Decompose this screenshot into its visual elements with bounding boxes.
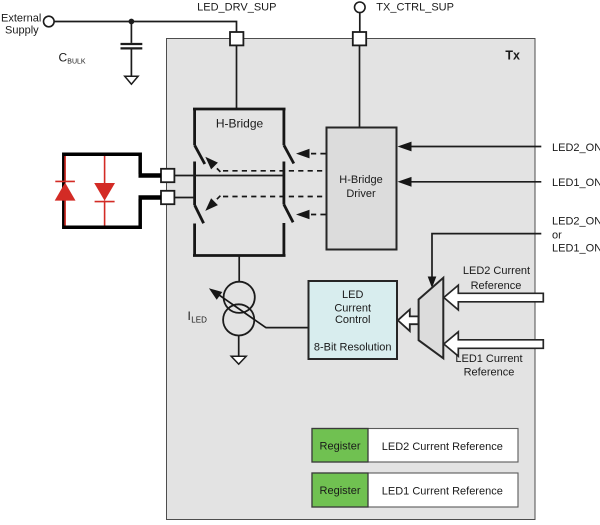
svg-text:H-Bridge: H-Bridge xyxy=(216,116,264,130)
svg-text:LED2 Current: LED2 Current xyxy=(463,265,530,277)
svg-text:LED1_ON: LED1_ON xyxy=(552,243,600,255)
svg-text:Register: Register xyxy=(320,485,361,497)
svg-text:Reference: Reference xyxy=(464,367,515,379)
svg-text:LED_DRV_SUP: LED_DRV_SUP xyxy=(197,1,276,13)
svg-text:TX_CTRL_SUP: TX_CTRL_SUP xyxy=(376,1,454,13)
svg-text:Driver: Driver xyxy=(346,188,376,200)
svg-text:LED: LED xyxy=(191,315,207,324)
svg-text:Reference: Reference xyxy=(471,280,522,292)
svg-text:Register: Register xyxy=(320,440,361,452)
svg-text:8-Bit Resolution: 8-Bit Resolution xyxy=(314,341,392,353)
svg-text:Current: Current xyxy=(334,303,371,315)
svg-text:LED1 Current Reference: LED1 Current Reference xyxy=(382,485,503,497)
svg-text:LED2_ON: LED2_ON xyxy=(552,142,600,154)
svg-text:LED2 Current Reference: LED2 Current Reference xyxy=(382,441,503,453)
svg-text:Control: Control xyxy=(335,314,370,326)
svg-text:LED: LED xyxy=(342,289,363,301)
svg-text:or: or xyxy=(552,229,562,241)
svg-text:C: C xyxy=(59,51,68,65)
svg-text:LED2_ON: LED2_ON xyxy=(552,216,600,228)
svg-text:LED1 Current: LED1 Current xyxy=(455,353,522,365)
svg-text:Supply: Supply xyxy=(5,25,39,37)
svg-text:BULK: BULK xyxy=(67,59,86,66)
svg-text:H-Bridge: H-Bridge xyxy=(339,174,382,186)
svg-text:LED1_ON: LED1_ON xyxy=(552,177,600,189)
svg-text:External: External xyxy=(1,12,41,24)
svg-text:Tx: Tx xyxy=(505,49,520,63)
